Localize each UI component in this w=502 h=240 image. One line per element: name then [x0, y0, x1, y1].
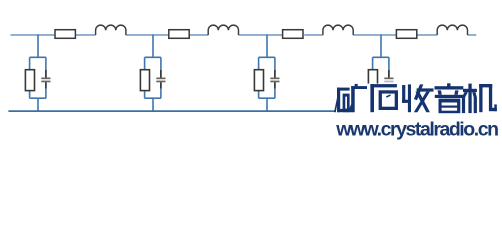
- svg-text:www.crystalradio.cn: www.crystalradio.cn: [335, 119, 498, 141]
